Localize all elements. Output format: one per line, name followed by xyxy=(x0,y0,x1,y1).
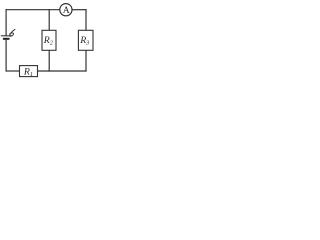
wire R2 branch bottom lead xyxy=(48,50,50,71)
battery cell: short plate (-) xyxy=(3,38,10,40)
wire bottom-left segment xyxy=(6,70,21,72)
node: junction of R2 branch with top wire xyxy=(48,9,49,10)
wire left lower (battery bottom lead) xyxy=(5,39,7,71)
wire right lower (R3 down to bottom-right corner) xyxy=(85,50,87,71)
ammeter A xyxy=(60,4,72,17)
resistor R2 xyxy=(42,30,56,50)
wire R2 branch top lead xyxy=(48,10,50,31)
label EMF epsilon xyxy=(9,29,15,36)
wire right upper (top-right corner down to R3) xyxy=(85,9,87,30)
wire top-right segment (ammeter to top-right corner) xyxy=(72,9,87,11)
wire bottom-middle segment xyxy=(38,70,87,72)
wire top-left segment (battery + to ammeter, with R2 tap) xyxy=(6,9,61,11)
battery cell: long plate (+) xyxy=(1,35,12,37)
resistor R1 xyxy=(20,66,38,78)
resistor R3 xyxy=(78,30,93,50)
svg-text:A: A xyxy=(63,5,70,16)
wire left upper (battery top lead) xyxy=(5,9,7,36)
node: junction of R2 branch with bottom wire xyxy=(48,70,49,71)
